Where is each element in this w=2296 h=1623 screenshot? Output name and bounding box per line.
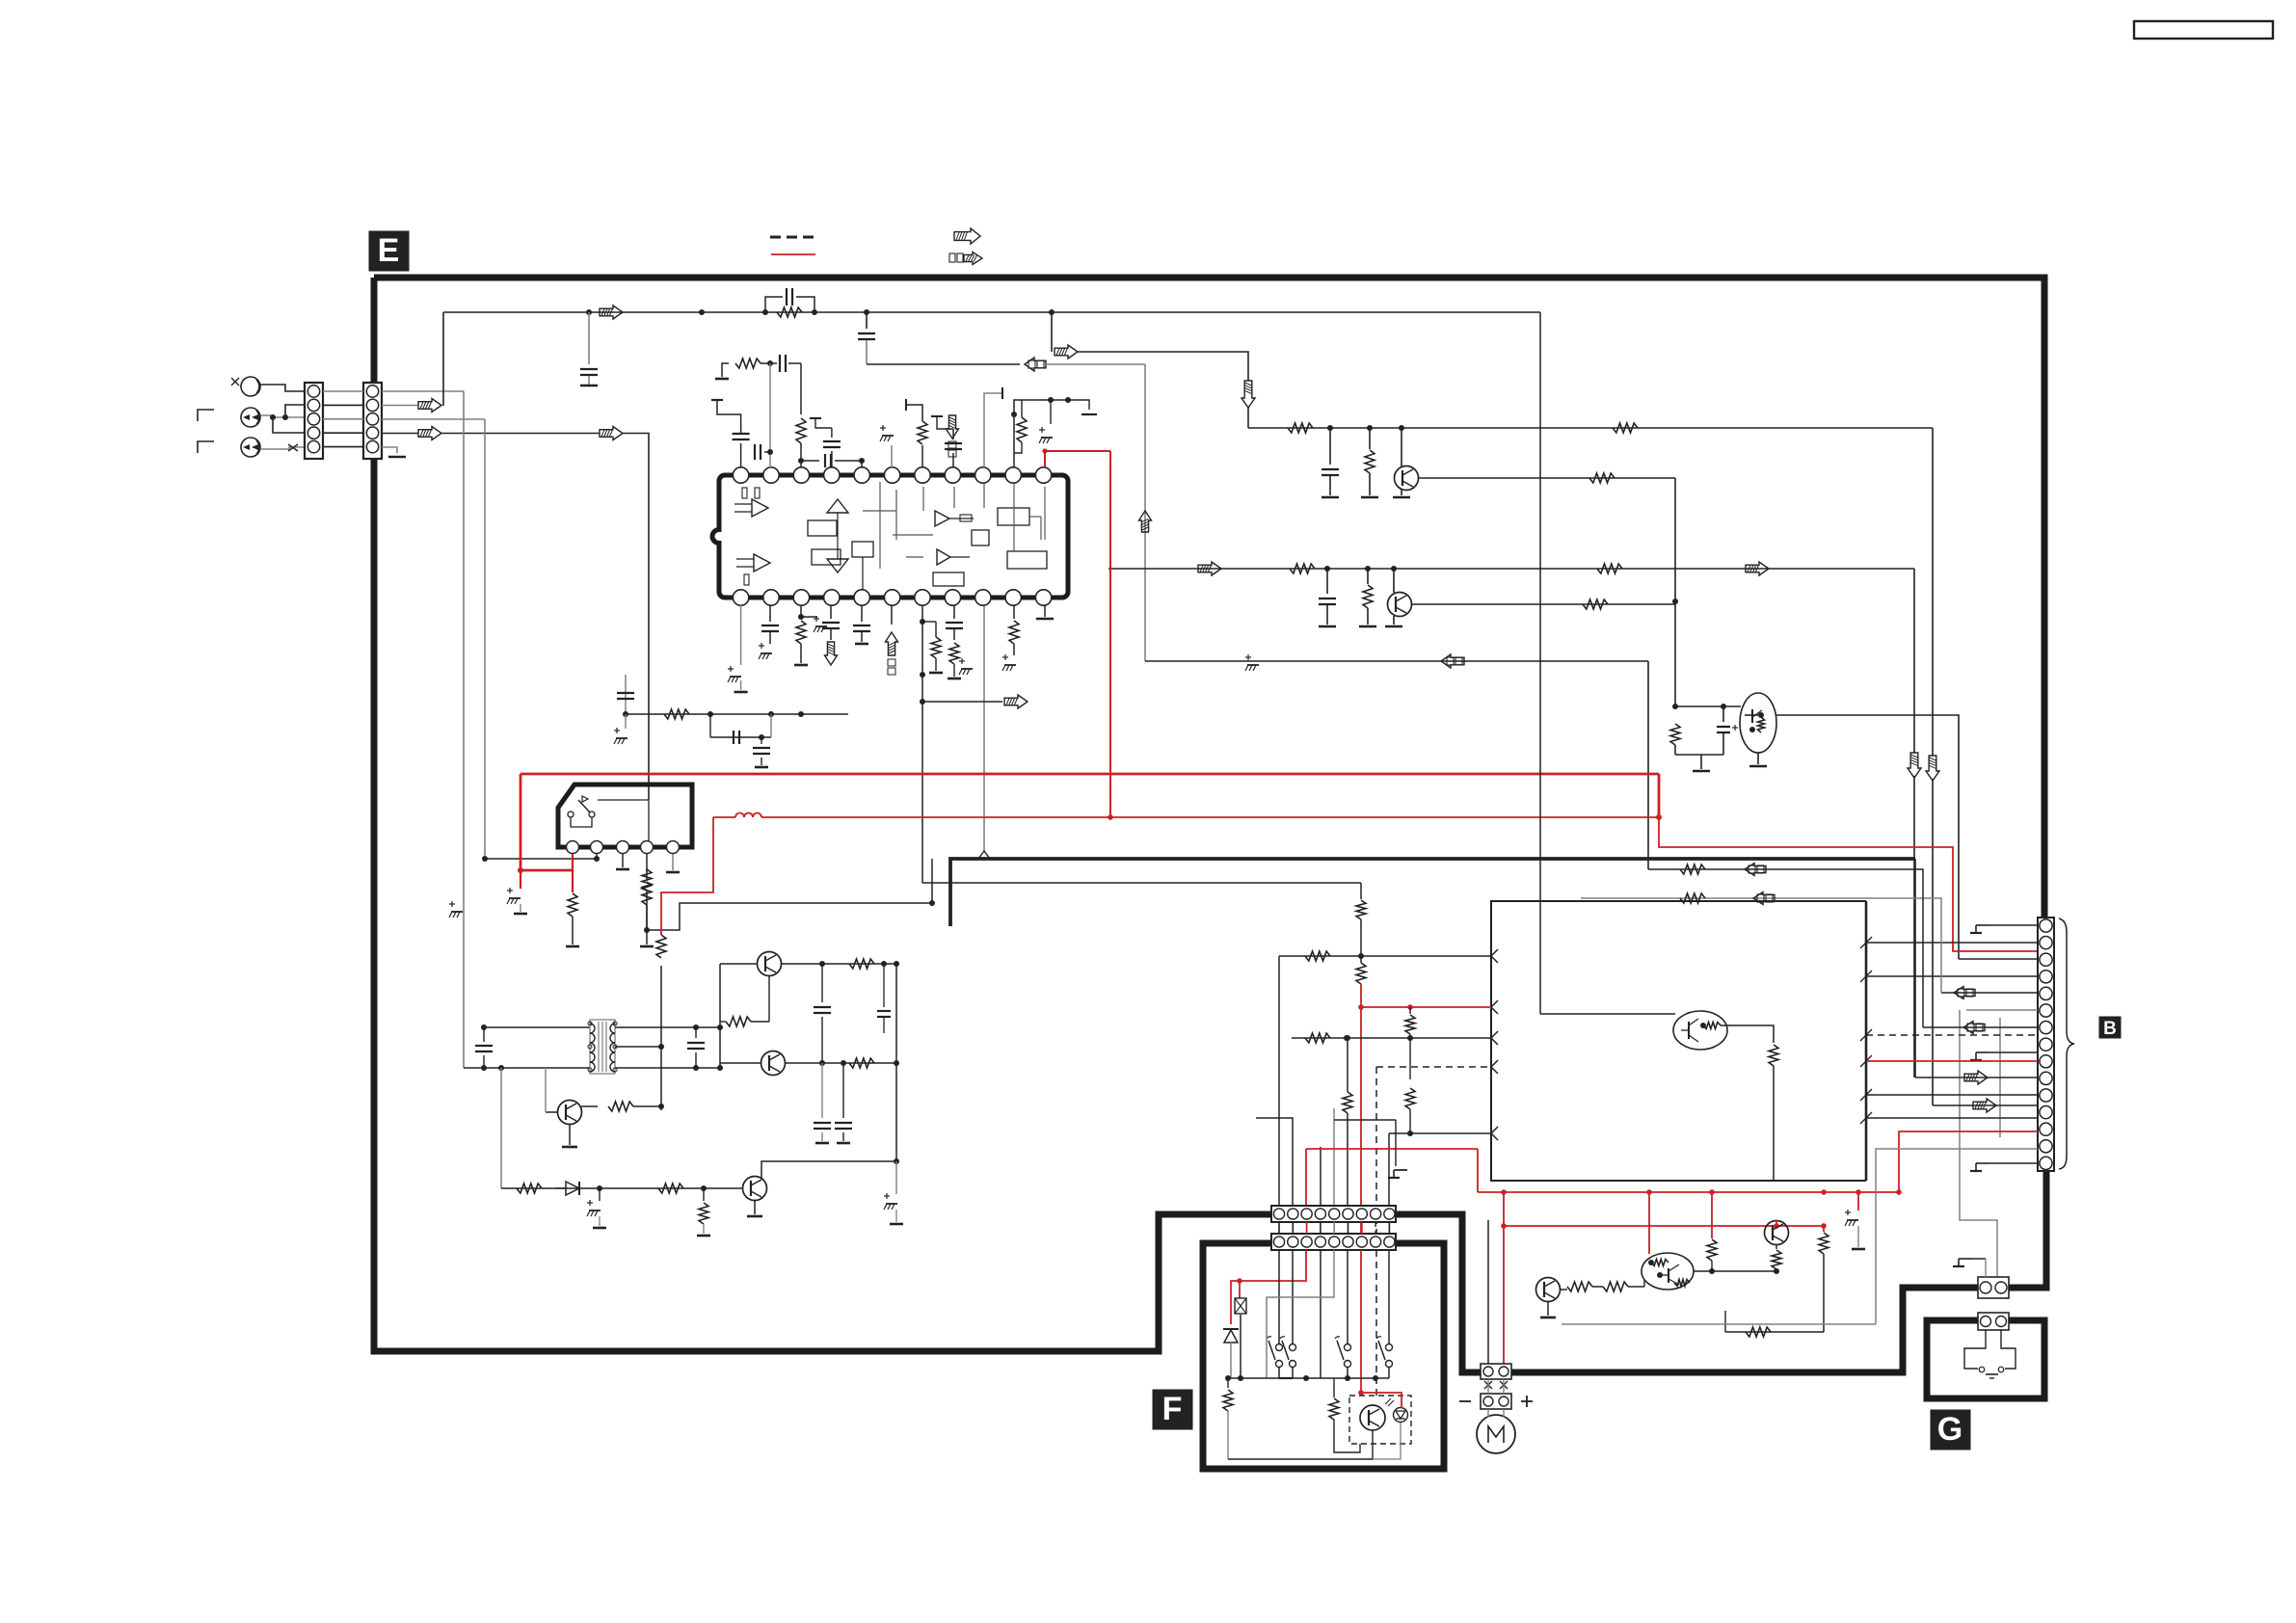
diode D1 — [566, 1182, 579, 1195]
wire pin4 stub — [861, 461, 863, 467]
wire row 1233 — [501, 1187, 742, 1189]
legend dashed-line sample — [770, 236, 815, 239]
resistor R30 x1412 — [1356, 963, 1366, 984]
wire strip to S3 — [1347, 1250, 1348, 1344]
wires CN-C to CN-D — [1278, 1222, 1280, 1234]
wire row 365 — [1078, 352, 1248, 381]
cap C13 below pin1 — [740, 605, 742, 665]
down arrow x1295 — [1241, 381, 1255, 408]
wire jack J2 tap down — [273, 417, 305, 433]
Q10 base chain — [1560, 1289, 1567, 1290]
vertical x1598 (top row to switch block) — [1539, 312, 1541, 1014]
cap C26 above pin 862 — [831, 451, 833, 467]
arrow-in (labelled) row 378 — [1025, 358, 1046, 371]
red to lamp — [1239, 1281, 1241, 1298]
x2005 continue — [1932, 779, 1934, 1105]
vertical x649 — [625, 675, 627, 714]
legend arrow (signal out) — [954, 228, 980, 244]
IC internal center block — [852, 542, 873, 557]
lamp lower wire — [1240, 1315, 1241, 1378]
resistor R15 pin7b — [931, 637, 941, 658]
audio bus (thick) — [950, 859, 1915, 926]
x686 vertical — [660, 966, 662, 1110]
solenoid/lamp (crossed box) — [1235, 1298, 1246, 1314]
wire strip x1370 long — [1320, 1250, 1322, 1378]
resistor R37 below Q12 — [1775, 1245, 1777, 1249]
cap C20 between rows — [483, 1027, 485, 1042]
row 377 left hook ground — [722, 363, 729, 377]
cap C14 pin2b — [769, 605, 771, 622]
relay RL1 switch — [568, 811, 574, 817]
red rail 1272 — [1504, 1225, 1824, 1227]
wire row 444 — [1248, 427, 1933, 429]
chevron row 1176 — [1491, 1127, 1498, 1140]
resistor R40 row932 — [1680, 893, 1705, 903]
IC U1 top pins — [733, 467, 748, 483]
transistor Q11 (flat pack) — [1642, 1253, 1694, 1290]
feeder x1441 — [1388, 1133, 1390, 1207]
wire bus left vertical 1 — [463, 391, 465, 1068]
wire CN-B' pin3 out — [382, 418, 485, 420]
x marker on connector pin 5 — [288, 444, 298, 451]
connector CN-D (9 pin) — [1271, 1234, 1396, 1250]
cap C1 below node A1 — [588, 312, 590, 364]
up arrow labelled pin6b — [891, 605, 893, 625]
resistor R11 row377 — [735, 359, 761, 368]
resistor R13 pin7 — [921, 445, 923, 467]
wire pin4 to relay switch — [623, 434, 649, 801]
wire to bus x967 — [647, 903, 932, 930]
CN-B wire10 + flag — [1976, 1051, 1989, 1053]
wire row 590 — [1108, 568, 1914, 570]
arrow on top row — [600, 306, 623, 319]
IC internal amp A4 — [937, 549, 950, 565]
Q2 base row 627 — [1411, 603, 1675, 605]
CN-B wire7 gray — [1966, 1009, 2038, 1011]
node B6 — [1391, 566, 1397, 572]
wire row 916 — [922, 882, 1361, 884]
resistor R17 row741 — [664, 709, 689, 719]
transformer right row top — [615, 1026, 720, 1028]
hook pin9 — [984, 393, 1002, 467]
wire jack J3 to connector — [260, 447, 305, 449]
red drop to R36 — [1711, 1192, 1713, 1238]
elec cap marker pin5 — [891, 445, 893, 467]
resistor R4 row444 — [1613, 423, 1638, 433]
wire bias row — [1675, 705, 1741, 707]
jack J3 — [241, 438, 260, 457]
CN-B wire17 — [1876, 1149, 2038, 1324]
IC internal op-amp A2 — [754, 554, 770, 572]
photo sensor dashed box — [1349, 1396, 1411, 1444]
wire into ellipse Q8 — [1540, 1013, 1675, 1015]
dashed vertical x1428 — [1375, 1067, 1377, 1249]
zener diode D2 — [1223, 1328, 1239, 1330]
photo transistor Q9 — [1360, 1405, 1385, 1430]
down arrow x1986 — [1908, 753, 1921, 778]
red rail B with choke — [713, 816, 735, 818]
motor connector CN-M2 — [1481, 1394, 1511, 1409]
node B5 — [1365, 566, 1371, 572]
chevron red row 1045 — [1491, 1000, 1498, 1014]
label E — [369, 231, 409, 271]
interconnect box outline — [1491, 901, 1866, 1181]
resistor R26 row1233 — [517, 1184, 542, 1193]
vertical x1412 upper — [1360, 883, 1362, 899]
resistor R36 — [1707, 1239, 1717, 1261]
CN-B wire14 + arrow — [1933, 1104, 2038, 1106]
transistor Q1 — [1401, 428, 1402, 466]
Q6 emitter ground — [569, 1125, 571, 1145]
RC pair R1/C2 on top row — [765, 297, 783, 312]
resistor R18 x671 — [646, 868, 648, 872]
arrow-in row932 — [1753, 892, 1775, 905]
vertical feed x1188 — [1144, 364, 1146, 661]
red feeder x1355 — [1305, 1149, 1307, 1207]
cap C17 pin9b — [953, 605, 955, 619]
wire pin4 run — [441, 433, 600, 435]
resistor R3 hang — [1369, 428, 1371, 449]
Q7 collector to rail — [761, 1161, 896, 1178]
Q5 collector row — [786, 1062, 896, 1064]
wire row 741 — [626, 713, 848, 715]
resistor R35 in F — [1333, 1378, 1335, 1397]
bus junction pointer — [983, 605, 985, 851]
cap-to-ground marker on v1 — [449, 903, 455, 905]
relay ground pin3 — [622, 854, 624, 867]
chevron row 1077 — [1491, 1031, 1498, 1045]
red corner junction — [1658, 774, 1661, 817]
wire black to motor connector — [1487, 1220, 1489, 1364]
IC internal limiter tri down — [827, 559, 848, 572]
IC internal block 1 — [808, 520, 837, 536]
feeder x1327 — [1278, 956, 1280, 1207]
CN-B wire15 — [1866, 1117, 2038, 1119]
red drop to Q11 — [1648, 1192, 1650, 1254]
wire drop to arrow pin2-recv — [442, 312, 444, 406]
wire row 1108 — [464, 1067, 590, 1069]
wire row to arrow-in — [867, 363, 1020, 365]
IC U1 body (28-pin) — [712, 475, 1068, 598]
resistor R9 row627 — [1583, 599, 1608, 609]
Q7 emitter ground — [754, 1201, 756, 1214]
transformer right row mid — [615, 1046, 661, 1048]
wire x1295 to row 444 — [1247, 408, 1249, 428]
motor connector CN-M1 — [1481, 1364, 1511, 1379]
cap C4 hang — [1329, 428, 1331, 465]
arrow branch row 728 — [922, 701, 1002, 703]
labelled down arrow x964 — [947, 415, 959, 439]
vertical feeder x1995 — [1648, 869, 1923, 1027]
Q4 collector row — [782, 963, 896, 965]
head block G outline (thick) — [1927, 1320, 2044, 1398]
cap C10 row478 — [801, 460, 819, 462]
brace for CN-B — [2059, 918, 2074, 1169]
label B — [2099, 1017, 2121, 1038]
connector CN-B' (5 pin, on border) — [363, 383, 382, 459]
resistor R10 bias — [1670, 724, 1680, 745]
wire row 1077 — [1292, 1037, 1491, 1039]
IC internal block 3 — [998, 508, 1029, 525]
svg-text:F: F — [1162, 1391, 1183, 1427]
CN-B wire11 red — [1866, 1060, 2038, 1062]
arrow out pin4 — [418, 427, 441, 440]
CN-B wire6 + arrow — [1941, 992, 2038, 994]
chevron w-res row 992 — [1491, 949, 1498, 963]
elec gnd x930 — [895, 1161, 897, 1194]
switch bottoms to row — [1278, 1367, 1280, 1378]
elec cap to ground (red node) — [520, 870, 521, 889]
resistor R22 base — [726, 1017, 751, 1026]
right rail x930 — [895, 964, 897, 1161]
elec gnd x649 below — [625, 714, 627, 729]
CN-B wire13 — [1866, 1094, 2038, 1096]
down arrow x2005 — [1926, 756, 1939, 781]
switch S2 — [1290, 1344, 1296, 1351]
cap C5 hang — [1326, 569, 1328, 594]
row 1382 w resistor R39 — [1725, 1331, 1824, 1333]
x1986 continue — [1913, 776, 1915, 1078]
red long vertical in F — [1360, 1250, 1362, 1393]
resistor R33 below — [1409, 1038, 1411, 1079]
vertical x2005 (row444 to B) — [1932, 428, 1934, 756]
cap C19 hang x790 — [761, 737, 762, 744]
caps C23/C24 below — [821, 1063, 823, 1118]
switch S4 — [1386, 1344, 1393, 1351]
up arrow on x1188 — [1139, 511, 1152, 532]
elec gnd pin1b — [728, 668, 734, 670]
legend arrow (signal in, labelled) — [964, 253, 982, 265]
wire row 686 — [1145, 660, 1648, 662]
red rail A (B+ supply) — [521, 773, 1659, 776]
IC internal limiter tri up — [827, 499, 848, 513]
IC internal op-amp A1 — [752, 499, 768, 517]
resistor R41 row902 — [1680, 865, 1705, 874]
resistor R31 hang — [1409, 1007, 1411, 1014]
resistor network above pin10/11 — [1014, 400, 1051, 461]
IC internal wires — [879, 482, 881, 569]
transformer right row bot — [615, 1067, 720, 1069]
Q3 collector out — [1775, 715, 1959, 959]
page number box (top right) — [2134, 21, 2273, 39]
ground bar pin5 — [388, 456, 406, 459]
gray cable to CN-G1 — [1960, 1010, 1997, 1277]
elec gnd below D1 — [599, 1188, 601, 1201]
feeder x1341 — [1256, 1118, 1293, 1207]
transistor Q4 — [758, 952, 782, 976]
CN-B wire2 — [1866, 942, 2038, 944]
cap C12 pin10 stub — [1013, 461, 1015, 467]
resistor R38 — [1819, 1233, 1829, 1254]
sensor bottom wire — [1228, 1430, 1373, 1459]
transistor Q5 — [761, 1051, 786, 1076]
resistor R14 pin3b — [800, 605, 802, 617]
relay ground pin5 — [672, 854, 674, 870]
cap C11 pin8 — [952, 453, 954, 467]
node B1 — [1327, 425, 1333, 431]
red branch row 1045 — [1361, 1006, 1491, 1008]
resistor R2 row444 — [1288, 423, 1313, 433]
cap C21 right of T1 — [695, 1027, 697, 1038]
wire strip to S4 — [1388, 1250, 1390, 1344]
resistor R34 in F — [1227, 1378, 1229, 1388]
red feed to connector B pin3 — [1659, 817, 2038, 951]
cap C18 row765 — [733, 731, 734, 744]
left rail push-pull — [719, 964, 721, 1068]
LED D3 — [1394, 1408, 1408, 1423]
legend red-line sample — [771, 253, 815, 255]
node A2 — [699, 309, 705, 315]
cap C15 pin4b + arrow — [830, 605, 832, 619]
red jog to LED — [1361, 1393, 1402, 1408]
switch S1 — [1276, 1344, 1283, 1351]
arrow-in on row 686 — [1441, 654, 1464, 668]
motor wires — [1487, 1379, 1489, 1394]
CN-B wire12 + arrow — [1915, 1077, 2038, 1078]
plus label — [1521, 1400, 1533, 1402]
node B4 — [1324, 566, 1330, 572]
resistor R24 — [849, 1058, 874, 1068]
resistor R29 row992 — [1305, 951, 1330, 961]
resistor R5 row496 — [1589, 473, 1615, 483]
vertical x1986 — [1913, 569, 1915, 753]
svg-text:E: E — [378, 232, 400, 269]
transistor Q8 (flat pack) — [1673, 1011, 1727, 1050]
red bottom rail 1237 — [1478, 1191, 1899, 1193]
bias bottom wire — [1675, 754, 1723, 756]
svg-text:G: G — [1937, 1411, 1962, 1448]
mech deck F outline (thick) — [1203, 1243, 1444, 1469]
Q3 emitter ground — [1757, 753, 1759, 764]
CN-B wire16 red — [1899, 1131, 2038, 1192]
node row377 — [767, 360, 773, 366]
elec gnd pin9b — [959, 660, 965, 662]
dashed vertical in F — [1375, 1250, 1377, 1396]
red link to relay pin1 — [521, 869, 573, 872]
resistor R28 hang x730 — [703, 1188, 705, 1201]
arrow on row 365 — [1055, 345, 1078, 359]
cap C22 mid — [821, 964, 823, 1002]
vertical x831 with resistor R12 — [800, 363, 802, 414]
red drop to relay area — [520, 774, 522, 870]
transistor Q2 — [1393, 569, 1395, 593]
vertical feeder x2014 — [1581, 898, 1941, 993]
cap C6 bias (polarized) — [1722, 706, 1724, 722]
cap to gnd red node — [1857, 1192, 1859, 1211]
connector CN-B (15 pin) — [2038, 918, 2054, 1171]
wire CN-B' pin4 out — [382, 433, 418, 435]
wire arrow-in to vertical — [1046, 363, 1145, 365]
down arrow below pin4b — [825, 642, 838, 665]
wire jack J1 to connector — [260, 385, 305, 391]
transformer T1 — [590, 1020, 615, 1074]
connector CN-G2 (2 pin) — [1978, 1313, 2009, 1330]
chevron dashed row 1107 — [1491, 1060, 1498, 1074]
ground pin14b — [1044, 605, 1046, 617]
feeder x1384 gray — [1333, 1108, 1335, 1207]
IC internal block 4 — [1007, 551, 1047, 569]
node B3 — [1399, 425, 1404, 431]
Q8 out resistor chain — [1721, 1025, 1774, 1043]
svg-text:B: B — [2103, 1019, 2117, 1039]
wire CN-B' pin2 out — [382, 405, 418, 407]
resistor R8 row590 — [1597, 564, 1622, 573]
transistor Q3 (with bias resistors) — [1740, 693, 1776, 753]
wire row 1176 — [1389, 1132, 1491, 1134]
jack J2 (line in R) — [241, 408, 260, 427]
cap C8 row377 — [779, 355, 781, 372]
wire strip x1384 gray jog — [1267, 1250, 1334, 1378]
arrow row590 right — [1746, 562, 1769, 575]
x520 drop — [500, 1068, 502, 1188]
resistor R21 red leg — [656, 935, 666, 958]
feeder x1370 — [1320, 1147, 1322, 1207]
resistor R6 row590 — [1290, 564, 1315, 573]
cap C7 above pin1 — [740, 443, 742, 467]
label F — [1153, 1390, 1192, 1429]
label G — [1931, 1410, 1970, 1450]
cap C3 below node — [866, 312, 868, 329]
ground flag near CN-G1 — [1959, 1258, 1972, 1260]
wire pin2 up — [769, 363, 771, 467]
transistor Q10 — [1536, 1278, 1561, 1302]
vertical x1738 — [1674, 478, 1676, 706]
wire strip to S1 — [1278, 1250, 1280, 1344]
red drop x1533 — [1477, 1149, 1479, 1192]
resistor R16 pin12b — [1013, 605, 1015, 619]
IC internal block 5 — [972, 530, 989, 545]
transistor Q12 — [1765, 1221, 1789, 1245]
transistor Q6 — [558, 1101, 582, 1125]
node A1 — [586, 309, 592, 315]
wire row 1066 — [484, 1026, 590, 1028]
relay RL1 outline (thick) — [558, 785, 692, 847]
CN-B wire18 + flag — [1976, 1162, 1989, 1164]
arrow-in row902 — [1745, 864, 1766, 876]
arrow pin4 mid — [600, 427, 623, 440]
wire jack J2 to connector — [260, 415, 305, 417]
head switch inside G — [1964, 1330, 1986, 1369]
wires CN-A to CN-B' — [323, 390, 363, 392]
cap C9 on pin2 line — [754, 444, 756, 460]
motor M1 — [1477, 1415, 1515, 1453]
resistor R7 hang — [1367, 569, 1369, 584]
IC U1 bottom pins — [733, 590, 748, 605]
red rail B left leg — [661, 817, 713, 935]
IC internal amp A3 — [935, 511, 949, 526]
Q11 out row — [1694, 1270, 1776, 1272]
connector CN-A (5 pin) — [305, 383, 323, 459]
IC internal block 6 — [933, 572, 964, 586]
resistor R20 below relay pin4 — [646, 854, 648, 881]
resistor R27 row1233 — [658, 1184, 683, 1193]
red drop to R38 — [1823, 1226, 1825, 1232]
cap C25 on rail — [883, 964, 885, 1007]
wire bus left vertical 2 — [484, 419, 486, 859]
x marks — [1484, 1381, 1492, 1389]
arrow out pin2 — [418, 399, 441, 412]
CN-B wire5 — [1866, 975, 2038, 977]
CN-B wire1 + flag — [1976, 924, 1989, 926]
wire top row (supply) — [443, 311, 1540, 313]
Q1 base row 496 — [1418, 477, 1675, 479]
junction row in F — [1228, 1377, 1389, 1379]
wire node A3 drop — [1051, 312, 1053, 352]
IC internal block 2 — [812, 549, 841, 565]
CN-B wire8 + arrow — [1923, 1026, 2038, 1028]
wire row 765 — [710, 736, 771, 738]
bus drop x1987 to wire12 — [1914, 859, 1916, 1078]
